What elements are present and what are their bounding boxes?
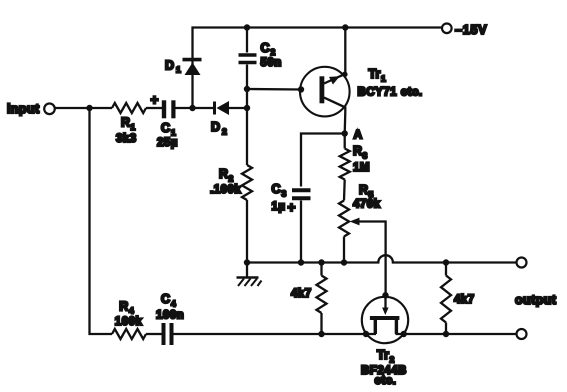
label D1: [165, 59, 181, 75]
svg-text:4: 4: [129, 306, 134, 316]
svg-text:4k7: 4k7: [454, 294, 475, 306]
junction base wire / Tr1 circle: [298, 86, 304, 92]
svg-text:4k7: 4k7: [291, 288, 312, 300]
svg-text:1: 1: [131, 122, 136, 132]
resistor 4k7 right: [441, 276, 451, 323]
svg-text:R: R: [121, 116, 130, 130]
wire: Tr1 emitter to top rail: [344, 28, 346, 74]
svg-text:D: D: [211, 120, 220, 134]
svg-text:+: +: [288, 200, 296, 215]
label C4: [161, 292, 176, 309]
label input: [7, 102, 40, 116]
svg-text:470k: 470k: [353, 199, 381, 211]
wire: R4 to C4: [146, 333, 162, 335]
junction base node: [244, 86, 250, 92]
label A: [354, 128, 363, 142]
capacitor C1: [164, 100, 173, 118]
svg-text:1: 1: [176, 65, 181, 75]
label R4: [119, 300, 134, 316]
svg-text:2: 2: [222, 126, 227, 136]
label etc.: [375, 375, 397, 387]
wire: C2 to base node and down to R2: [246, 65, 248, 166]
wire: base of Tr1: [247, 88, 301, 91]
svg-text:input: input: [7, 102, 40, 116]
transistor Tr2 (JFET): [362, 294, 408, 343]
terminal output lower: [517, 329, 527, 339]
wire: C2 branch top: [246, 28, 248, 53]
resistor R4: [112, 329, 146, 339]
svg-text:R: R: [119, 300, 128, 314]
label 3k3: [116, 133, 137, 145]
junction input / R4 branch: [86, 105, 92, 111]
label + of C3: [288, 200, 296, 215]
svg-text:–15V: –15V: [455, 23, 487, 37]
svg-text:1µ: 1µ: [272, 201, 286, 213]
label C2: [261, 41, 276, 57]
label BCY71 etc.: [358, 87, 423, 99]
wire: node A to C3 branch: [301, 134, 345, 187]
svg-text:25µ: 25µ: [157, 137, 178, 149]
label R3: [353, 144, 368, 161]
svg-text:.100k: .100k: [210, 184, 241, 196]
diode D1: [183, 60, 202, 75]
resistor R1: [112, 103, 146, 113]
junction lower rail / Tr2 right: [401, 331, 407, 337]
label 25µ: [157, 137, 178, 149]
label C3: [272, 182, 287, 199]
junction main line / R2 branch: [244, 105, 250, 111]
svg-text:+: +: [151, 93, 159, 108]
capacitor C2: [239, 55, 257, 63]
label R5: [359, 183, 374, 200]
terminal output upper: [517, 258, 527, 268]
wire: C1 to D2: [176, 107, 214, 109]
svg-text:2: 2: [271, 47, 276, 57]
label 470k: [353, 199, 381, 211]
wire: 4k7 left bottom lead: [320, 313, 322, 334]
label C1: [161, 121, 176, 138]
svg-text:2: 2: [229, 174, 234, 184]
label 100k: [210, 184, 241, 196]
wire: R1 to C1: [146, 107, 162, 109]
svg-text:etc.: etc.: [375, 375, 397, 387]
resistor R2: [242, 165, 252, 200]
svg-text:100n: 100n: [156, 310, 184, 322]
wire: Tr1 collector to node A: [344, 112, 347, 134]
resistor R3: [340, 149, 350, 180]
wire: R5 to ground rail: [343, 237, 345, 263]
wire: input branch down to R4: [90, 108, 113, 334]
label 100n: [156, 310, 184, 322]
label Tr1: [369, 67, 387, 84]
svg-text:C: C: [161, 292, 170, 306]
wire: C3 to ground rail: [300, 201, 302, 263]
wire: input line to R1: [55, 107, 112, 109]
svg-text:1: 1: [171, 128, 176, 138]
svg-text:R: R: [353, 144, 362, 158]
junction ground rail / R5: [341, 259, 347, 265]
junction main line / D1 branch: [189, 105, 195, 111]
wire: R2 to ground rail: [246, 200, 248, 263]
junction Tr2 gate / circle: [382, 292, 388, 298]
label + of C1: [151, 93, 159, 108]
svg-text:R: R: [219, 167, 228, 181]
svg-text:1M: 1M: [353, 162, 370, 174]
svg-text:4: 4: [171, 299, 176, 309]
svg-text:output: output: [515, 293, 557, 307]
label 50n: [261, 57, 282, 69]
svg-text:C: C: [161, 121, 170, 135]
wire: 4k7 right top lead: [445, 263, 447, 276]
label 1M: [353, 162, 370, 174]
label R1: [121, 116, 136, 132]
transistor Tr1: [300, 67, 350, 117]
junction lower rail / 4k7 right: [443, 331, 449, 337]
terminal -15V: [442, 24, 452, 34]
label 100k R4: [115, 316, 143, 328]
svg-text:C: C: [272, 182, 281, 196]
svg-text:D: D: [165, 59, 174, 73]
svg-text:R: R: [359, 183, 368, 197]
resistor R5 (potentiometer): [339, 201, 349, 237]
svg-text:3: 3: [282, 189, 287, 199]
svg-text:100k: 100k: [115, 316, 143, 328]
label R2: [219, 167, 234, 184]
label 4k7 left: [291, 288, 312, 300]
label BF244B: [361, 365, 407, 377]
ground rail wire with hop: [247, 255, 517, 262]
svg-text:3: 3: [363, 151, 368, 161]
junction lower rail / 4k7 left: [318, 331, 324, 337]
node A junction: [342, 130, 348, 136]
svg-text:Tr: Tr: [377, 348, 389, 362]
junction top rail / Tr1 emitter: [342, 24, 348, 30]
capacitor C3: [292, 190, 311, 198]
junction top rail / C2: [244, 24, 250, 30]
label -15V: [455, 23, 487, 37]
junction ground rail / 4k7 right: [443, 259, 449, 265]
R5 wiper arrow and wire to Tr2 gate: [350, 218, 386, 294]
label 1µ: [272, 201, 286, 213]
junction ground rail / C3: [298, 259, 304, 265]
wire: lower output rail right: [396, 333, 517, 335]
svg-text:BCY71 etc.: BCY71 etc.: [358, 87, 423, 99]
resistor 4k7 left: [317, 276, 327, 314]
diode D2: [215, 101, 248, 115]
junction ground rail / R2: [244, 259, 250, 265]
capacitor C4: [164, 323, 172, 345]
junction ground rail / 4k7 left: [318, 259, 324, 265]
terminal input: [44, 104, 55, 115]
junction lower rail / Tr2 left: [363, 331, 369, 337]
svg-text:Tr: Tr: [369, 67, 381, 81]
svg-text:A: A: [354, 128, 363, 142]
svg-text:1: 1: [381, 74, 386, 84]
label D2: [211, 120, 227, 136]
wire: top -15V rail: [193, 28, 442, 109]
svg-text:C: C: [261, 41, 270, 55]
wire: R3 to R5: [343, 180, 346, 201]
svg-text:3k3: 3k3: [116, 133, 137, 145]
svg-text:2: 2: [390, 355, 395, 365]
wire: 4k7 left top lead: [320, 263, 322, 276]
svg-text:50n: 50n: [261, 57, 282, 69]
wire: 4k7 right bottom lead: [445, 323, 447, 335]
label Tr2: [377, 348, 395, 365]
wire: node A down to R3: [344, 134, 346, 149]
ground symbol: [237, 263, 262, 287]
label 4k7 right: [454, 294, 475, 306]
wire: lower output rail left: [174, 333, 377, 335]
label output: [515, 293, 557, 307]
